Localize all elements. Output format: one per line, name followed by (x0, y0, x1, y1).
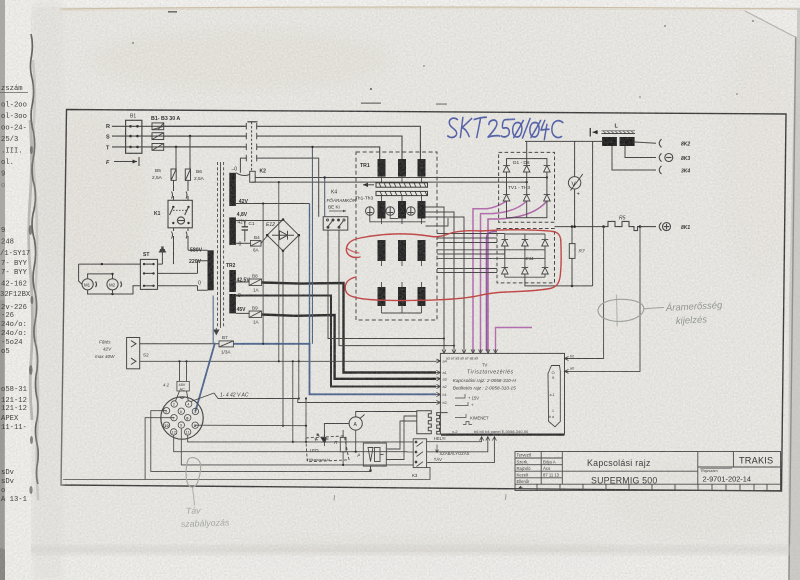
board right connector (548, 366, 560, 427)
K4 pushbutton labels (327, 190, 357, 210)
K3 wires to board bottom (427, 442, 495, 463)
connector pins (163, 401, 198, 435)
transformer TR1 dashed block (356, 152, 437, 320)
voltmeter V (568, 141, 582, 226)
inductor L (590, 124, 635, 147)
phase T wire to TR1 (257, 147, 380, 159)
wire S2 top to B7 (140, 343, 219, 345)
wire 42,5V to B8 (236, 281, 249, 283)
phase R wire to TR1 (257, 126, 421, 159)
wires 48V box to pins 2,4 (176, 360, 189, 401)
contactor K2 main contacts (246, 122, 257, 171)
bottom-left dark corner (0, 548, 18, 580)
wire TR2 0-tap to K2 coil (236, 173, 250, 176)
TR1 thyristor row bars (378, 201, 426, 219)
wire aux contact line (240, 158, 246, 173)
capacitor C1 (242, 221, 255, 236)
wires mu box to x2 plug (386, 416, 417, 460)
wire L tap to 3K4 (612, 146, 656, 170)
typewriter text column on left strip (0, 85, 31, 504)
fuse B8 (249, 274, 262, 293)
fuse B2 (152, 133, 164, 140)
right page edge line and scanner band (788, 8, 800, 580)
x-2 plug connector jigsaw female (437, 413, 448, 435)
diodes TW1-TH3 lower row (503, 195, 550, 202)
wires below K1 (172, 228, 208, 264)
board top input arrows (442, 349, 498, 353)
board +15V bracket lines (455, 394, 472, 425)
ammeter top wire to x2 plug (324, 412, 431, 455)
motor M1 (82, 279, 97, 290)
transformer TR2 core dashed (214, 162, 224, 335)
diodes D1-D8 upper row (503, 166, 550, 173)
blue vertical feed to B7 junction (212, 296, 214, 344)
wires fuses to contactor K2 (164, 126, 247, 147)
TR1 to E11 interconnect wires (426, 218, 505, 273)
wire L to 8K2 (635, 142, 656, 143)
wire phase R (112, 125, 246, 127)
F arrow (114, 157, 139, 166)
K3 selector contacts box (412, 439, 427, 478)
bridge rectifier E12 (266, 218, 300, 252)
pencil tick marks (334, 495, 506, 501)
fuse B6 (185, 169, 204, 182)
wire 0 tap primary (198, 286, 208, 291)
TR1 secondary bars row3 (378, 240, 426, 261)
fuse B5 (152, 168, 176, 181)
thick wire B9 to board a1 (262, 315, 436, 379)
bottom whiter band (18, 552, 788, 580)
circular connector X1 (161, 397, 203, 439)
LED resistor R (334, 437, 346, 451)
junction dot phase T (311, 146, 313, 148)
control board box (440, 353, 564, 434)
magenta stub wire 5 (496, 328, 533, 352)
pencil oval ammeter (598, 295, 664, 326)
wire ST right to ground (158, 263, 163, 265)
rectifier block D1-D8 dashed box (499, 152, 555, 222)
LED block dashed (306, 436, 349, 462)
paper top edge faint line (60, 7, 797, 9)
wire K2 aux line right then down to K4 (257, 158, 319, 217)
K4 switch box (323, 217, 348, 230)
pencil text Aramerosseg kijelzes (665, 300, 724, 327)
fuse B3 (152, 144, 164, 151)
red hand-drawn loop (345, 230, 561, 301)
wire output bus to inductor (525, 141, 602, 286)
terminal 8K1 (659, 223, 690, 232)
pencil text Tav szabalyozas (181, 505, 230, 529)
small specks on paper (132, 11, 754, 105)
magenta gate wire 2 (481, 201, 527, 351)
wire 4,8V tap to C1/E12 (236, 220, 245, 223)
phase labels R S T F (106, 124, 110, 166)
wire K2 coil bottom to right (252, 181, 526, 183)
labels HELYI SZABALYOZAS TAV (434, 436, 470, 462)
fuse B4 (251, 235, 262, 253)
board bottom arrows (480, 437, 497, 442)
wires E12 connections (245, 221, 283, 426)
wire K2 coil right branch down to K4 (324, 178, 326, 217)
magenta gate wire 4 (487, 232, 498, 352)
E12 minus vertical to pin6 line (282, 425, 284, 427)
wire 0 mid tap right thin (236, 296, 436, 387)
soft tonal bands (33, 0, 63, 580)
terminal 8K2 (659, 139, 690, 147)
blue diagonal to connector pin 3 (195, 344, 214, 412)
wire T-aux down to K4 (276, 147, 312, 344)
wire 42V AC long to rectifier block (236, 203, 310, 205)
underline below zszám (0, 92, 28, 94)
title block (515, 452, 781, 491)
E12 plus vertical to 42VAC line (298, 235, 300, 398)
wire phase T (112, 146, 246, 148)
top white band above paper edge (0, 0, 800, 7)
wire ST middle to TR2 220V line (158, 272, 198, 274)
contactor K1 box (154, 200, 192, 228)
TR1 core arrow (363, 183, 374, 187)
heater supply vertical from 42V tap (262, 204, 264, 344)
fuse B9 (249, 306, 262, 325)
LED symbol (315, 434, 329, 446)
wires K4 bottom drops (328, 230, 444, 338)
switch ST box (140, 252, 157, 289)
board left input arrows + labels (436, 359, 447, 405)
thyristor circles (366, 207, 426, 222)
pencil balloon bottom (186, 458, 201, 505)
TR1 secondary bars row4 (378, 287, 426, 306)
motor M2 (107, 279, 122, 290)
magenta gate wire 1 (473, 201, 507, 351)
coil K2 (250, 171, 256, 182)
K4 BE-KI arrow (329, 210, 346, 213)
Futes heater label (95, 340, 115, 360)
wire L tap to 8K3 (625, 146, 656, 158)
TR1 primary bars row1 (378, 159, 426, 177)
wire B5/B6 drops (172, 136, 191, 200)
ammeter A (349, 415, 364, 431)
drawing frame border (61, 110, 786, 492)
motor circuit wires (79, 263, 141, 295)
aux vertical mid (292, 361, 294, 442)
phase S wire to TR1 (257, 136, 402, 159)
TR2 secondary bar 4 (229, 294, 236, 313)
TR2 secondary bar 3 (229, 270, 236, 292)
annotations overlay (181, 117, 724, 529)
E11 output bottom (525, 277, 593, 286)
wire ST bottom to 0 (158, 285, 198, 287)
blue wire B7 to board b1 (309, 204, 311, 344)
connector S2 (127, 338, 149, 369)
heater return vertical from K2 line (278, 182, 280, 361)
top-right fold (745, 11, 797, 38)
thyristor cathode wires to board (426, 207, 465, 349)
fuse B7 (219, 335, 233, 355)
terminal block B1 (126, 114, 142, 154)
wire S2 bottom to board a4 (140, 360, 436, 362)
blue handwriting SKT 250/04C (448, 117, 563, 139)
wire 0 tap to B4 (236, 242, 251, 244)
aux vertical 306 (305, 399, 307, 442)
E11 diode columns (502, 234, 549, 277)
left scanner edge (0, 0, 5, 580)
TR2 secondary bar 42V (229, 173, 236, 206)
TR1 core hatched bars (376, 183, 428, 196)
ragged torn edge of left strip (30, 34, 38, 484)
shunt resistor R5 (602, 216, 656, 231)
thick wire B8 to board a3 (262, 283, 436, 373)
junction dots on phases (175, 146, 178, 149)
ground symbol right of ST (159, 247, 166, 264)
motor control box (358, 443, 387, 471)
wire phase S (112, 135, 246, 137)
red loop inner wiggle (347, 248, 360, 253)
output wire E11 plus to R5 (555, 226, 604, 228)
TR1 inner column links (373, 177, 422, 313)
title block texts (517, 453, 774, 489)
wire ST top line left to motors (79, 263, 141, 265)
48V AC label box (163, 381, 189, 391)
left paper strip (separate sheet, whiter) (5, 0, 31, 580)
resistor R7 (569, 227, 585, 286)
magenta gate wire 3 (488, 201, 547, 351)
fuse B1 (152, 123, 164, 130)
wire 220V tap (198, 261, 208, 274)
wires R5 shunt sense down to board (565, 227, 641, 372)
label D1-D8 (508, 160, 530, 191)
rectifier block E11 dashed box (497, 229, 555, 283)
x-2 plug connector jigsaw male (417, 411, 432, 434)
wire 45V to B9 (236, 312, 249, 315)
board right output arrows b0 a0 (565, 355, 575, 374)
board inner texts (452, 363, 529, 435)
terminal 3K4 (659, 166, 690, 175)
TR2 secondary bar 2 (229, 217, 236, 245)
D1-D8 bus ring (507, 141, 547, 217)
bottom mesh wires (63, 411, 430, 480)
TR2 primary winding bar (208, 250, 214, 290)
terminal 8K3 (659, 153, 690, 162)
